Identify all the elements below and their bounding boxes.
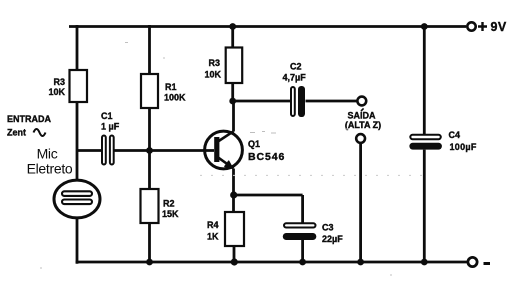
node C4 top rail junction [421,23,428,30]
svg-text:R2: R2 [163,199,175,209]
terminal minus [468,257,490,266]
svg-text:BC546: BC546 [248,151,285,163]
wire R4 to ground [233,246,236,262]
scan noise specks [40,43,425,276]
terminal SAIDA hot [345,97,381,130]
resistor R1 [141,74,186,108]
resistor R3 (right) [204,48,242,84]
svg-text:(ALTA Z): (ALTA Z) [345,120,381,130]
svg-text:SAIDA: SAIDA [347,111,376,121]
svg-text:22µF: 22µF [322,234,343,244]
svg-text:10K: 10K [48,87,65,97]
svg-text:C3: C3 [322,223,334,233]
wire R1 branch vertical [148,25,151,151]
wire C3 to ground [301,240,304,262]
wire C1 to base node [115,149,151,152]
svg-text:Zent: Zent [7,128,26,138]
wire collector node to C2 [233,100,290,103]
terminal SAIDA ground [356,134,365,143]
wire R3 to top rail [231,27,234,48]
svg-text:ENTRADA: ENTRADA [7,114,51,124]
node collector junction [229,98,236,105]
capacitor C3 [283,223,343,245]
node SAIDA ground junction [357,259,364,266]
wire SAIDA ground vertical [359,143,362,262]
wire collector node to R3 [231,83,234,101]
svg-text:R1: R1 [165,82,177,92]
wire C1 input wire [77,149,101,152]
svg-text:Eletreto: Eletreto [27,161,73,177]
svg-text:15K: 15K [162,209,179,219]
svg-text:R4: R4 [207,220,219,230]
svg-text:C2: C2 [290,62,302,72]
svg-text:1K: 1K [207,232,219,242]
svg-text:10K: 10K [204,70,221,80]
svg-text:R3: R3 [208,58,220,68]
node R2 ground junction [146,259,153,266]
node R4 ground junction [231,258,238,265]
capacitor C1 [101,111,120,165]
svg-text:Q1: Q1 [248,139,260,149]
wire emitter node to C3 [234,195,303,223]
resistor R2 [141,189,180,223]
node emitter junction [230,191,237,198]
svg-text:C4: C4 [449,130,461,140]
wire top +9V rail [69,25,466,28]
wire collector vertical [232,101,235,132]
svg-text:100µF: 100µF [450,142,477,152]
wire C4 branch vertical bottom [423,150,426,262]
svg-text:100K: 100K [164,93,186,103]
svg-text:C1: C1 [101,111,113,121]
node base junction [146,147,153,154]
microphone MIC electret [27,146,100,218]
svg-text:9V: 9V [491,20,507,34]
svg-text:1 µF: 1 µF [101,122,120,132]
transistor Q1 BC546 [205,131,286,169]
terminal +9V [467,20,507,34]
resistor R3 (left) [48,70,87,102]
wire C2 to output terminal [306,100,358,103]
svg-text:R3: R3 [53,77,65,87]
capacitor C4 [409,130,477,152]
node C4 ground junction [421,259,428,266]
node top rail junction R3 [229,23,236,30]
resistor R4 [207,212,244,246]
capacitor C2 [283,62,307,118]
wire emitter vertical [232,169,235,213]
wire bottom rail [76,261,467,264]
wire R2 branch vertical [148,151,151,263]
node C3 ground junction [299,259,306,266]
svg-text:Mic: Mic [37,146,58,162]
wire C4 branch vertical top [423,27,426,135]
wire base node to transistor [150,149,215,152]
svg-text:4,7µF: 4,7µF [283,73,307,83]
node ENTRADA label [7,114,51,138]
wire left branch vertical (mic branch) [76,25,79,264]
